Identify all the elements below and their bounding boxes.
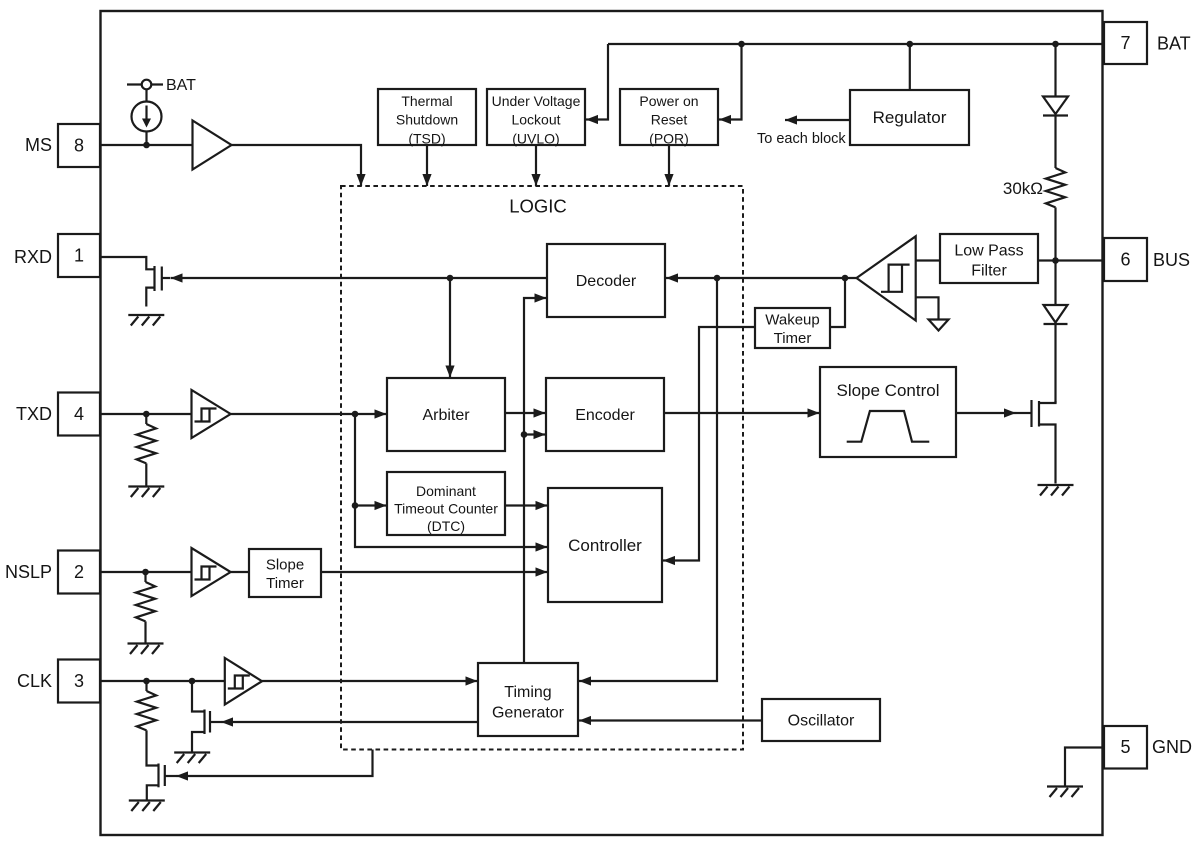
current source I1 (132, 102, 162, 132)
block U14 Slope Control (820, 367, 956, 457)
node TXD junction (143, 411, 150, 418)
svg-text:Shutdown: Shutdown (396, 112, 458, 128)
wire feedback riser to decoder and timing generator (524, 298, 547, 663)
ground at Q3 (129, 801, 165, 812)
block U13 Low Pass Filter (940, 234, 1038, 283)
wire BAT rail to diode D1 (1054, 44, 1056, 97)
node BUS junction (1052, 257, 1059, 264)
svg-text:(POR): (POR) (649, 130, 689, 146)
wire branch to DTC (355, 504, 387, 506)
svg-text:Arbiter: Arbiter (422, 407, 470, 424)
wire buffer A2 to arbiter (231, 413, 387, 415)
wire BUS line (1038, 259, 1104, 261)
svg-text:Wakeup: Wakeup (765, 312, 819, 329)
svg-text:BUS: BUS (1153, 250, 1190, 270)
wire DTC to controller (505, 504, 548, 506)
node riser to encoder (521, 431, 528, 438)
svg-text:3: 3 (74, 671, 84, 691)
block U15 Oscillator (762, 699, 880, 741)
svg-text:MS: MS (25, 135, 52, 155)
wire BAT rail (608, 43, 1104, 45)
wire BAT rail to regulator (909, 44, 911, 90)
node schmitt output junction (842, 275, 849, 282)
svg-text:1: 1 (74, 246, 84, 266)
buffer A3 (NSLP schmitt) (192, 548, 231, 596)
svg-text:Reset: Reset (651, 112, 688, 128)
block U11 Timing Generator (478, 663, 578, 736)
wire CLK pin to buffer A4 (100, 680, 225, 682)
wire junction to wakeup timer (830, 278, 845, 327)
block U6 Decoder (547, 244, 665, 317)
svg-text:(UVLO): (UVLO) (512, 130, 559, 146)
wire BAT rail to POR (719, 44, 742, 120)
svg-text:5: 5 (1120, 737, 1130, 757)
wire slope timer to controller (321, 571, 548, 573)
svg-text:Timer: Timer (266, 575, 304, 592)
node TXD line branch (352, 411, 359, 418)
wire diode D2 chain from BUS node (1054, 261, 1056, 306)
wire NSLP junction to resistor R3 (144, 572, 146, 582)
signal ground at U17 (929, 320, 949, 331)
block U3 Under Voltage Lockout (UVLO) (487, 89, 585, 146)
svg-text:8: 8 (74, 136, 84, 156)
wire gate lead Q4 (1016, 412, 1032, 414)
svg-text:Under Voltage: Under Voltage (492, 93, 581, 109)
svg-text:Dominant: Dominant (416, 483, 476, 499)
svg-text:30kΩ: 30kΩ (1003, 179, 1043, 198)
wire current source to MS line (145, 132, 147, 146)
node decoder line to arbiter (447, 275, 454, 282)
resistor R1 30k (1046, 168, 1065, 207)
wire resistor R4 to transistor Q3 drain (147, 730, 159, 765)
resistor R4 (CLK pulldown) (137, 691, 156, 730)
wire UVLO to LOGIC (535, 145, 537, 186)
wire buffer A4 to timing generator (262, 680, 478, 682)
svg-text:Timing: Timing (504, 684, 551, 701)
block U5 Regulator (850, 90, 969, 145)
buffer A1 (MS) (193, 121, 232, 170)
wire CLK junction to resistor R4 (145, 681, 147, 691)
wire encoder to slope control (664, 412, 820, 414)
wire timing generator to transistor Q2 gate (221, 721, 478, 723)
svg-text:Decoder: Decoder (576, 273, 637, 290)
wire resistor R1 to BUS node (1054, 207, 1056, 260)
block U2 Thermal Shutdown (TSD) (378, 89, 476, 146)
node NSLP junction (142, 569, 149, 576)
svg-text:Oscillator: Oscillator (788, 713, 855, 730)
svg-text:To each block: To each block (757, 131, 846, 147)
svg-text:Slope Control: Slope Control (836, 381, 939, 400)
wire logic boundary to transistor Q3 gate (176, 750, 373, 777)
pin box CLK (3) (58, 660, 100, 703)
block U10 Controller (548, 488, 662, 602)
wire TSD to LOGIC (426, 145, 428, 186)
node BAT rail POR branch (738, 41, 745, 48)
ground at GND pin (1047, 787, 1083, 798)
wire slope control to transistor Q4 gate (956, 412, 1016, 414)
transistor Q3 (lower clamp) (147, 764, 176, 800)
buffer A2 (TXD schmitt) (192, 390, 231, 438)
resistor R3 (NSLP pulldown) (136, 582, 155, 621)
svg-text:(TSD): (TSD) (408, 130, 445, 146)
node receive line junction B (714, 275, 721, 282)
block U16 Slope Timer (249, 549, 321, 597)
wire junction B to timing generator (579, 278, 717, 681)
wire schmitt U17 reference stub (916, 297, 939, 319)
diode D2 (1044, 305, 1068, 324)
wire diode D1 to resistor (1054, 116, 1056, 169)
svg-text:6: 6 (1120, 250, 1130, 270)
wire TXD pin to buffer A2 (100, 413, 192, 415)
wire resistor R2 to ground (145, 463, 147, 485)
pin box BUS (6) (1104, 238, 1147, 281)
wire buffer A1 out to LOGIC top (232, 145, 362, 186)
wire wakeup timer to controller (663, 327, 755, 561)
wire BAT terminal stubs (127, 83, 163, 85)
svg-text:GND: GND (1152, 737, 1192, 757)
wire riser stub to encoder (524, 433, 546, 435)
svg-text:2: 2 (74, 562, 84, 582)
transistor Q1 (RXD output) (100, 257, 170, 307)
svg-text:BAT: BAT (1157, 34, 1191, 54)
svg-text:Power on: Power on (639, 93, 698, 109)
node CLK junction resistor (143, 678, 150, 685)
resistor R2 (TXD pulldown) (137, 424, 156, 463)
wire MS pin to buffer A1 (100, 144, 193, 146)
ground at R2 (128, 487, 164, 498)
slope waveform glyph inside U14 (847, 411, 930, 442)
diode D1 (1043, 97, 1068, 116)
svg-text:BAT: BAT (166, 77, 196, 94)
svg-text:LOGIC: LOGIC (509, 196, 567, 217)
svg-text:NSLP: NSLP (5, 562, 52, 582)
block U12 Wakeup Timer (755, 308, 830, 348)
pin box RXD (1) (58, 234, 100, 277)
svg-text:Lockout: Lockout (511, 112, 560, 128)
ground at Q4 (1038, 485, 1074, 496)
ground at Q2 (174, 753, 210, 764)
buffer A4 (CLK schmitt) (225, 658, 262, 705)
node CLK junction transistor (189, 678, 196, 685)
wire BAT terminal to current source (145, 89, 147, 101)
wire NSLP pin to buffer A3 (100, 571, 192, 573)
svg-text:RXD: RXD (14, 247, 52, 267)
svg-text:Thermal: Thermal (401, 93, 452, 109)
pin box TXD (4) (58, 393, 100, 436)
svg-text:7: 7 (1120, 33, 1130, 53)
node BAT rail diode branch (1052, 41, 1059, 48)
pin box BAT (7) (1104, 22, 1147, 64)
ground at Q1 (128, 315, 164, 326)
current source I1 BAT terminal circle (142, 80, 152, 90)
svg-text:Slope: Slope (266, 557, 304, 574)
svg-text:CLK: CLK (17, 671, 52, 691)
wire BAT rail to UVLO (586, 44, 608, 120)
node BAT rail regulator branch (907, 41, 914, 48)
transistor Q4 (BUS driver) (1032, 400, 1056, 484)
svg-text:Controller: Controller (568, 536, 642, 555)
svg-text:(DTC): (DTC) (427, 518, 465, 534)
node branch to DTC (352, 502, 359, 509)
wire schmitt U17 output to decoder (666, 277, 857, 279)
wire arbiter to encoder (505, 412, 546, 414)
block U9 Dominant Timeout Counter (DTC) (387, 472, 505, 535)
svg-text:Timeout Counter: Timeout Counter (394, 501, 498, 517)
wire POR to LOGIC (668, 145, 670, 186)
svg-text:Low Pass: Low Pass (954, 243, 1023, 260)
pin box GND (5) (1104, 726, 1147, 769)
wire TXD junction to resistor R2 (145, 414, 147, 424)
wire resistor R3 to ground (144, 621, 146, 642)
wire diode D2 to Q4 drain (1054, 324, 1056, 403)
block U7 Arbiter (387, 378, 505, 451)
svg-text:Filter: Filter (971, 263, 1007, 280)
node MS junction (143, 142, 150, 149)
svg-text:Regulator: Regulator (873, 108, 947, 127)
svg-text:Encoder: Encoder (575, 407, 635, 424)
wire TXD branch down to controller (355, 414, 548, 547)
wire LPF to schmitt U17 (916, 259, 940, 261)
pin box MS (8) (58, 124, 100, 167)
schmitt receiver U17 (857, 236, 916, 320)
wire buffer A3 to slope timer (231, 571, 249, 573)
ground at R3 (128, 644, 164, 655)
transistor Q2 (CLK clamp) (192, 681, 221, 752)
wire GND pin to ground (1065, 748, 1104, 786)
wire regulator to each block (785, 119, 850, 121)
svg-text:Timer: Timer (774, 330, 812, 347)
pin box NSLP (2) (58, 551, 100, 594)
svg-text:TXD: TXD (16, 404, 52, 424)
block U8 Encoder (546, 378, 664, 451)
LOGIC dashed block boundary (341, 186, 743, 750)
wire decoder output to RXD transistor gate (171, 277, 548, 279)
block U4 Power on Reset (POR) (620, 89, 718, 146)
wire oscillator to timing generator (579, 719, 762, 721)
svg-text:4: 4 (74, 404, 84, 424)
svg-text:Generator: Generator (492, 705, 565, 722)
wire node to arbiter top (449, 278, 451, 378)
